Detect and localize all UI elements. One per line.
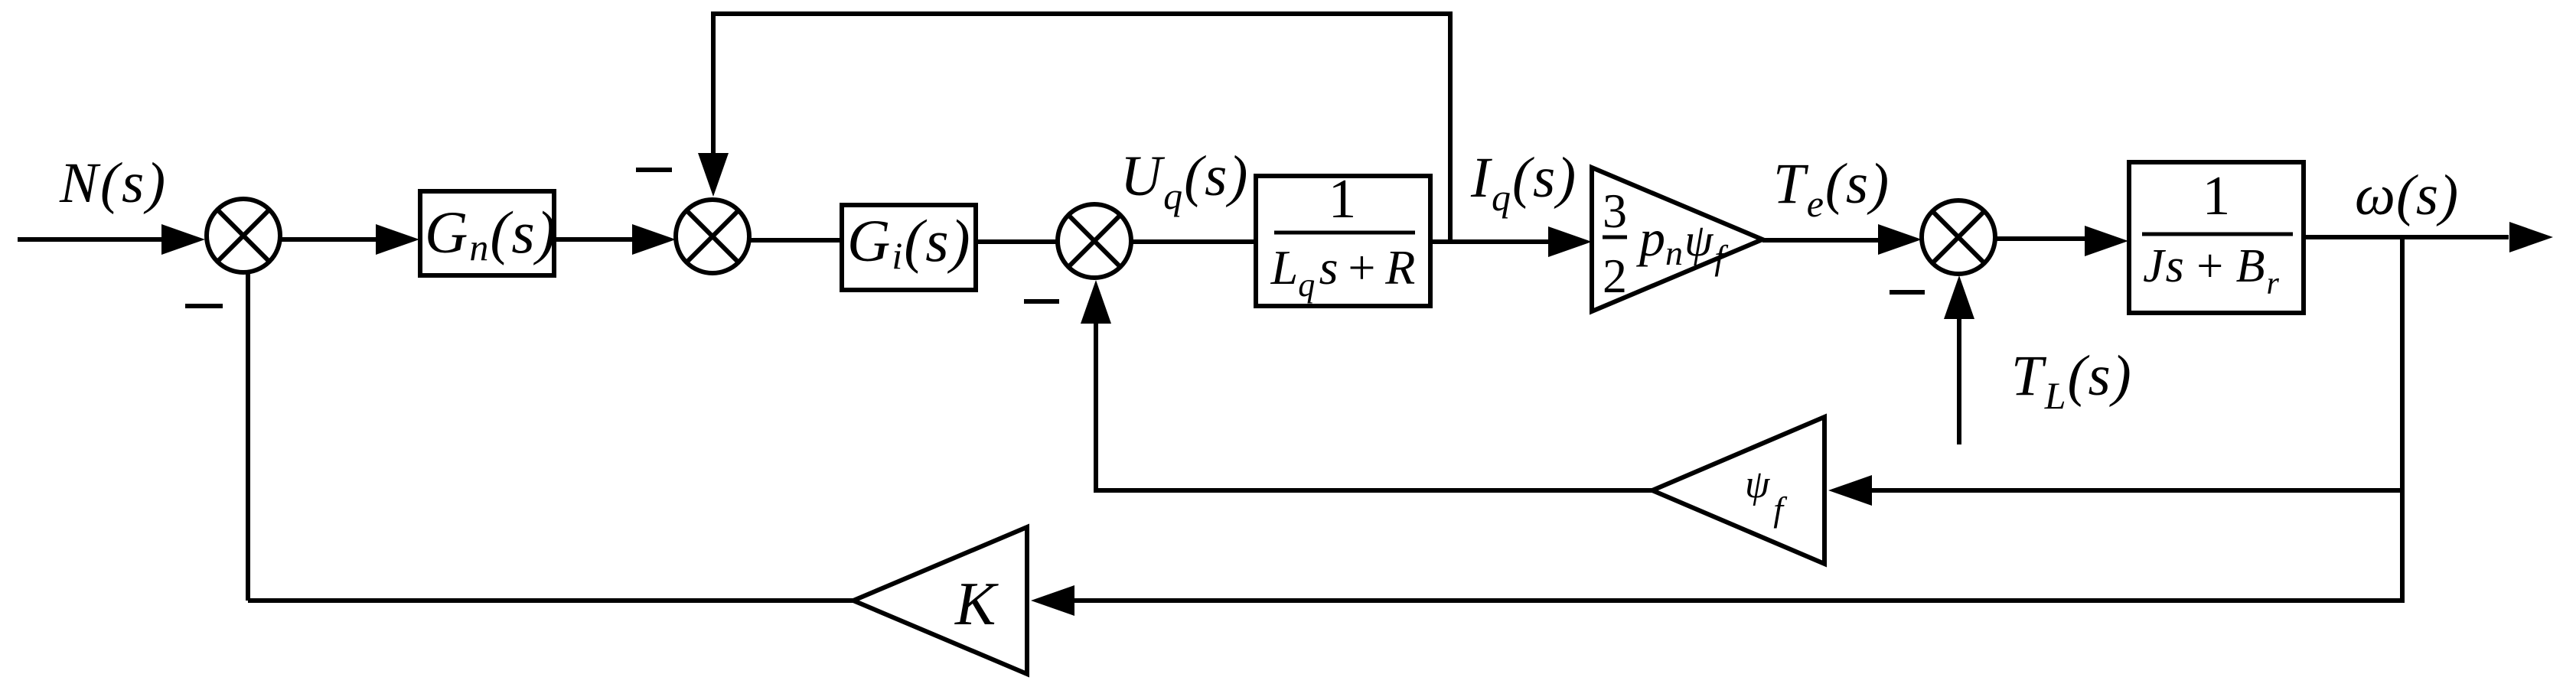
arrowhead into gain triangle — [1548, 226, 1592, 257]
summing junction S1 — [207, 199, 280, 272]
svg-text:K: K — [954, 571, 999, 638]
block Gi box — [842, 205, 976, 290]
gain triangle K — [853, 527, 1027, 674]
svg-text:Js + Br: Js + Br — [2143, 240, 2281, 301]
svg-text:Gi(s): Gi(s) — [847, 207, 972, 277]
svg-text:Lq s + R: Lq s + R — [1270, 240, 1416, 304]
block 1/(Lqs+R) box — [1256, 176, 1430, 306]
svg-text:N(s): N(s) — [59, 151, 168, 215]
arrowhead psi_f feedback into S3 — [1081, 280, 1111, 324]
svg-text:Uq(s): Uq(s) — [1120, 145, 1249, 217]
svg-text:Gn(s): Gn(s) — [425, 199, 558, 269]
fraction bar in Lq block — [1274, 231, 1415, 235]
svg-text:3: 3 — [1603, 184, 1627, 238]
wire Gi to sum3 — [976, 239, 1058, 244]
minus sign at S3 — [1024, 299, 1059, 304]
arrowhead into J block — [2085, 226, 2128, 256]
wire sum2 to Gi — [749, 238, 842, 243]
wire T_L input vertical — [1957, 317, 1961, 444]
arrowhead into S4 — [1878, 224, 1922, 255]
wire input N(s) — [18, 237, 165, 242]
arrowhead top feedback into S2 — [698, 153, 729, 197]
wire top feedback vertical from Iq node — [1448, 11, 1453, 242]
arrowhead into S2 — [632, 224, 676, 255]
arrowhead into K triangle — [1031, 585, 1074, 616]
wire sum4 to J block — [1995, 236, 2088, 241]
wire Gn to sum2 — [554, 237, 635, 242]
summing junction S2 — [676, 200, 749, 273]
gain triangle psi_f — [1652, 417, 1824, 564]
svg-text:1: 1 — [1329, 168, 1357, 230]
summing junction S3 — [1058, 204, 1131, 278]
wire K feedback right segment — [1074, 598, 2402, 603]
svg-text:Te(s): Te(s) — [1773, 152, 1890, 225]
arrowhead into S1 — [161, 224, 205, 255]
wire output branch vertical — [2400, 237, 2405, 603]
block Gn box — [420, 191, 554, 275]
summing junction S4 — [1922, 200, 1995, 274]
minus sign at S2 — [636, 168, 672, 172]
wire psi_f feedback right segment — [1872, 488, 2402, 493]
svg-text:1: 1 — [2203, 164, 2231, 226]
fraction bar in J block — [2142, 233, 2293, 236]
arrowhead T_L into S4 — [1944, 275, 1974, 319]
minus sign at S1 — [185, 304, 223, 308]
wire top feedback horizontal — [711, 11, 1453, 16]
arrowhead into psi_f triangle — [1828, 475, 1872, 506]
wire Lq block to gain triangle — [1430, 239, 1550, 244]
wire sum1 to Gn — [280, 237, 379, 242]
wire psi_f feedback vertical to sum3 — [1094, 321, 1098, 493]
block 1/(Js+Br) box — [2129, 162, 2304, 313]
svg-text:ω(s): ω(s) — [2355, 164, 2459, 227]
gain triangle 3/2 pn psi_f — [1592, 168, 1762, 311]
wire top feedback vertical at sum2 — [711, 14, 716, 155]
wire J block to output — [2304, 235, 2509, 239]
wire sum1 drop vertical — [246, 270, 250, 601]
wire sum3 to Lq block — [1131, 239, 1256, 244]
fraction bar 3/2 in gain triangle — [1603, 236, 1627, 239]
svg-text:Iq(s): Iq(s) — [1470, 146, 1577, 219]
svg-text:2: 2 — [1603, 249, 1627, 303]
arrowhead into Gn — [376, 224, 419, 255]
wire K feedback left segment — [248, 598, 856, 603]
svg-text:TL(s): TL(s) — [2011, 344, 2133, 417]
minus sign at S4 — [1890, 290, 1925, 295]
svg-text:ψf: ψf — [1745, 463, 1788, 529]
wire psi_f feedback left segment — [1096, 488, 1655, 493]
wire gain triangle to sum4 — [1762, 238, 1881, 243]
arrowhead output — [2509, 222, 2553, 252]
